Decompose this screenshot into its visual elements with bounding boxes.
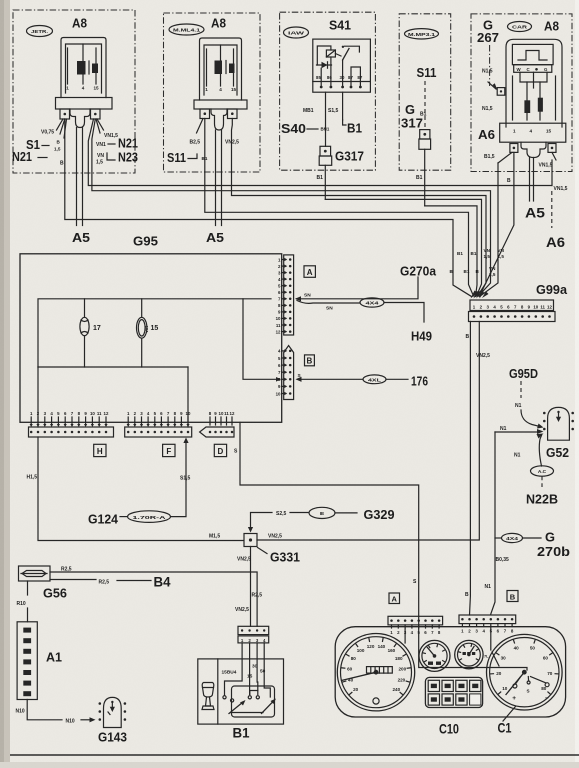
wire bus L4 box3 B1 to G99a bbox=[325, 199, 481, 296]
component box M.MP3.1 (sensor S11) bbox=[399, 14, 451, 170]
lamp wires bbox=[84, 299, 86, 367]
coil winding left bbox=[77, 61, 86, 75]
ECU connector strip D bbox=[200, 411, 235, 437]
coil winding left bbox=[215, 61, 223, 75]
wire G95D to G52 bbox=[520, 381, 522, 398]
ECU connector strip F bbox=[125, 411, 192, 437]
wire G317 down B1 bbox=[324, 165, 326, 199]
arrowheads into G99a bbox=[471, 291, 478, 299]
wire S11 to G317 bbox=[424, 81, 426, 128]
box1 code oval JETR bbox=[27, 26, 53, 37]
coil connector body bbox=[61, 38, 106, 98]
wire A.C to G52 bbox=[539, 436, 541, 467]
wire S1,5 bbox=[342, 92, 344, 120]
switch wiring bbox=[225, 643, 243, 695]
ECU G95 control unit bbox=[20, 234, 315, 457]
connector oval 1.70R-A bbox=[128, 511, 171, 523]
wire N1 from cluster B5 up bbox=[491, 432, 495, 614]
wire box5 B1,5 to G99a bbox=[480, 163, 499, 297]
wire G317 down B1 bbox=[424, 149, 426, 206]
terminal left bbox=[510, 144, 518, 153]
connector G143 bbox=[98, 697, 127, 744]
relay switch bbox=[343, 49, 349, 61]
wire G99a pin1 B down to cluster bbox=[469, 322, 472, 616]
wire box5 right terminal down to A6 bbox=[551, 160, 553, 186]
fuse wires bbox=[141, 299, 143, 367]
tap square with arrow bbox=[497, 88, 505, 96]
wire B-strip into tacho bbox=[491, 627, 499, 667]
cluster connector strip A bbox=[388, 616, 443, 635]
fan lines right terminal bbox=[97, 119, 104, 130]
flange bbox=[500, 123, 566, 142]
box4 code oval M MP3 1 bbox=[405, 29, 439, 39]
junction G331 bbox=[244, 534, 257, 547]
boxed label B bbox=[507, 591, 518, 602]
wire into fuel gauge bbox=[404, 628, 406, 643]
terminal left bbox=[200, 109, 210, 119]
wire N10 A1 to G143 bbox=[27, 700, 62, 720]
fuse 15 10A bbox=[137, 317, 147, 338]
box1 border bbox=[13, 10, 135, 173]
boxed label B bbox=[305, 355, 315, 366]
wire G331 down VN2,5 bbox=[250, 547, 252, 627]
connector oval IE bbox=[309, 507, 335, 518]
wire pair box5 to A5 bbox=[529, 158, 531, 202]
wire H1,5 from ECU H2 to G331 bbox=[38, 437, 243, 541]
switch blades bbox=[229, 702, 243, 714]
wire S from ECU D to cluster A5 bbox=[240, 422, 419, 616]
wire bus L5 box4 B1 to G99a bbox=[425, 206, 477, 297]
ignition module body bbox=[506, 39, 562, 127]
coil winding right bbox=[92, 64, 98, 74]
relay pin dots bbox=[320, 86, 323, 89]
connector G317 bbox=[420, 130, 430, 139]
cluster connector strip B bbox=[459, 615, 516, 634]
wire R2,5 from G56 to connector bbox=[50, 572, 257, 626]
relay coil bbox=[326, 50, 335, 57]
connector 4pin above B1 bbox=[238, 626, 269, 643]
wire S2,5 to G329 bbox=[251, 513, 273, 531]
wire bus L6 box2 B1 to G99a bbox=[205, 119, 474, 297]
ECU connector strip B bbox=[276, 346, 294, 400]
branch via 4X4 to G270b bbox=[495, 537, 501, 539]
tachometer bbox=[487, 634, 563, 710]
internal wires to H2 F10 bbox=[38, 367, 188, 427]
box3 code oval IAW bbox=[284, 27, 309, 38]
boxed label A bbox=[304, 266, 315, 278]
warning light panel bbox=[425, 677, 482, 707]
connector G317 bbox=[320, 146, 331, 156]
wire S1,5 from ECU F10 to G124 bbox=[171, 440, 186, 517]
connector flange bbox=[194, 100, 247, 109]
box3 border bbox=[280, 12, 376, 170]
internal wire bottom bbox=[38, 366, 188, 368]
wire S inside cluster to tachometer bbox=[419, 616, 527, 670]
connector oval A.C bbox=[531, 466, 554, 476]
label B1 bbox=[343, 120, 346, 125]
boxed label A bbox=[389, 593, 400, 604]
coil connector body bbox=[200, 38, 242, 100]
wire bus L1 box1 VN1 to A6 bbox=[88, 119, 552, 186]
internal wire to B8 bbox=[243, 299, 278, 380]
terminal right bbox=[91, 109, 101, 119]
instrument cluster C10/C1 bbox=[335, 591, 565, 737]
relay top wires bbox=[317, 46, 331, 65]
terminal left bbox=[60, 109, 70, 119]
module terminal strip W C G bbox=[514, 65, 552, 73]
module coil left bbox=[524, 100, 530, 113]
wire SN from pin A7 to G270a bbox=[297, 277, 419, 299]
wire bus L3 box2 VN2,5 to G99a bbox=[232, 119, 487, 297]
relay 87 bracket bbox=[351, 67, 360, 87]
relay diode bbox=[317, 64, 332, 66]
coil winding right bbox=[229, 64, 235, 74]
speedometer bbox=[337, 634, 414, 711]
wire pair box1 to A5 bbox=[76, 128, 78, 226]
coil pin lines bbox=[206, 49, 208, 86]
component box IAW (injection relay S41) bbox=[280, 12, 376, 170]
contacts bbox=[223, 696, 226, 699]
fan lines left terminal bbox=[57, 119, 64, 130]
center tongue bbox=[70, 109, 90, 128]
wire S from pin B8 via 4XL to 176 bbox=[298, 378, 364, 380]
wire bus L7 box1 B to G99a bbox=[65, 119, 472, 297]
component box JETR (ignition coil) bbox=[12, 10, 138, 173]
box5 border bbox=[471, 14, 572, 172]
wire bus L2 box1 VN1,5 to G99a bbox=[92, 119, 491, 296]
module coil right bbox=[538, 98, 543, 112]
center tongue bbox=[211, 109, 227, 130]
wire R10 G56 to A1 bbox=[27, 581, 29, 595]
terminal right bbox=[228, 109, 238, 119]
boxed label F bbox=[163, 444, 175, 456]
connector G99a bbox=[469, 282, 568, 322]
lamp 17 bbox=[80, 317, 89, 335]
module inner wires bbox=[512, 76, 514, 120]
fuse G56 bbox=[19, 566, 68, 601]
internal wire top bbox=[38, 299, 271, 367]
connector flange bbox=[56, 98, 113, 110]
fan line to B2,5 bbox=[197, 119, 204, 134]
wire G99a pin2 VN2,5 down to G331 bbox=[257, 322, 479, 541]
wire to N22B bbox=[541, 476, 543, 487]
module top window with pulse bbox=[512, 44, 553, 64]
box2 code oval M ML4.1 bbox=[169, 24, 204, 35]
temperature gauge bbox=[455, 640, 483, 668]
ECU connector strip H bbox=[29, 411, 114, 437]
component box M.ML4.1 (ignition coil) bbox=[164, 13, 261, 172]
relay box bbox=[313, 39, 371, 92]
key symbol bbox=[203, 688, 214, 698]
fuel gauge bbox=[419, 640, 450, 671]
connector G52 bbox=[543, 407, 574, 460]
ignition switch B1 bbox=[198, 643, 284, 741]
box2 border bbox=[164, 13, 261, 172]
boxed label H bbox=[94, 444, 106, 456]
coil pin lines bbox=[67, 48, 69, 84]
switch inner box bbox=[232, 686, 275, 717]
box5 code oval CAR bbox=[508, 22, 532, 32]
wire relay to G317 bbox=[325, 92, 327, 146]
wire A6 dashed tail bbox=[551, 191, 553, 228]
fusebox A1 bbox=[17, 622, 62, 700]
terminal right bbox=[548, 144, 556, 153]
center tongue bbox=[521, 142, 546, 157]
ECU connector strip A bbox=[276, 255, 294, 335]
wire N1 from cluster to G52 bbox=[495, 431, 539, 433]
wire box5 B down bbox=[480, 152, 514, 295]
wire R2,5 to B4 bbox=[50, 579, 96, 581]
box4 border bbox=[399, 14, 451, 170]
left dash-dot wire bbox=[489, 45, 491, 86]
component box CAR (ignition module A8) bbox=[471, 14, 572, 172]
wire pair box2 to A5 bbox=[215, 130, 217, 226]
wire SN via 4X4 to H49 bbox=[297, 301, 360, 304]
boxed label D bbox=[214, 444, 226, 456]
